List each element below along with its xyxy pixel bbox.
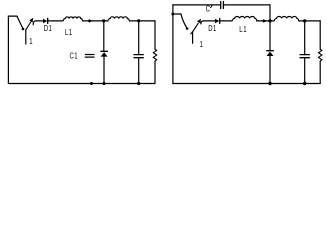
wire: bottom wire xyxy=(8,83,155,85)
svg-text:1: 1 xyxy=(200,40,203,49)
wire: capacitor branch upper xyxy=(304,21,306,55)
wire: diode branch upper xyxy=(269,21,271,51)
wire: top-left contact horizontal xyxy=(8,15,17,17)
switch SW1 blade xyxy=(17,16,23,28)
wire: capacitor branch lower xyxy=(304,58,306,84)
svg-text:D1: D1 xyxy=(208,24,217,33)
switch SW2 blade xyxy=(181,14,187,28)
wire: junction to L2 and L2 to C node xyxy=(270,20,274,22)
svg-text:C1: C1 xyxy=(70,52,79,61)
wire: top capacitor branch left xyxy=(173,4,220,6)
switch SW1 motion arrow xyxy=(26,22,31,30)
node: top of output capacitor xyxy=(303,19,306,22)
node: diode to bottom wire xyxy=(268,82,271,85)
inductor L1 xyxy=(63,17,83,21)
svg-text:D1: D1 xyxy=(44,24,53,33)
svg-text:L1: L1 xyxy=(65,28,73,37)
node: junction L1/L2/D2/C' xyxy=(268,19,271,22)
wire: diode branch lower xyxy=(269,56,271,84)
wire: bottom wire xyxy=(173,83,320,85)
wire: top wire start hook xyxy=(33,21,36,25)
capacitor C' xyxy=(220,2,222,9)
inductor L2 xyxy=(108,17,130,21)
svg-text:L1: L1 xyxy=(239,25,247,34)
wire: left vertical side xyxy=(7,16,9,84)
diode D1 xyxy=(215,19,219,24)
switch SW1 throw contact stub xyxy=(25,30,27,44)
wire: top capacitor branch right xyxy=(223,4,270,6)
wire: main wire start hook xyxy=(201,21,204,24)
wire: right edge upper xyxy=(154,21,156,49)
svg-text:C: C xyxy=(206,5,210,14)
switch SW2 contact stub xyxy=(173,13,181,15)
node: stray dot on bottom wire xyxy=(90,82,93,85)
diode D2 (vertical, pointing up) xyxy=(101,50,108,52)
wire: right edge upper xyxy=(319,21,321,49)
wire: D1 to L1 xyxy=(48,20,63,22)
node: capacitor to bottom wire xyxy=(137,82,140,85)
inductor L1 xyxy=(232,16,257,20)
wire: L1 to junction with current arrow xyxy=(257,20,270,22)
diode D1 xyxy=(43,19,47,24)
current arrowhead xyxy=(262,19,267,22)
wire: junction to L2 and L2 to C node xyxy=(104,20,108,22)
resistor R (load) xyxy=(319,49,322,61)
wire: capacitor branch lower xyxy=(138,58,140,84)
inductor L2 xyxy=(274,16,299,20)
wire: capacitor branch upper xyxy=(138,21,140,55)
switch SW2 motion arrow xyxy=(191,23,198,34)
wire: top wire to right corner xyxy=(305,20,321,22)
node: top of output capacitor xyxy=(137,19,140,22)
wire: top wire to right corner xyxy=(139,20,155,22)
wire: top branch drop to junction xyxy=(269,5,271,21)
switch SW1 pivot dot xyxy=(22,28,25,31)
capacitor C (output) xyxy=(300,54,309,56)
wire: top wire to diode D1 xyxy=(36,20,43,22)
wire: right edge lower xyxy=(319,61,321,83)
node: switch contact on left side xyxy=(171,13,174,16)
diode D2 (vertical, pointing up) xyxy=(267,50,274,52)
wire: right edge lower xyxy=(154,61,156,83)
wire: D1 to L1 xyxy=(220,20,232,22)
node: diode to bottom wire xyxy=(102,82,105,85)
capacitor C (output) xyxy=(134,54,143,56)
switch SW2 pivot dot xyxy=(186,27,189,30)
wire: L1 to junction with current arrow xyxy=(83,20,104,22)
switch SW2 throw contact stub xyxy=(192,32,194,43)
svg-text:1: 1 xyxy=(29,37,32,46)
wire: left vertical side xyxy=(172,5,174,84)
node: capacitor to bottom wire xyxy=(303,82,306,85)
node: junction L1/L2/D2 xyxy=(102,19,105,22)
wire: to diode D1 xyxy=(204,20,215,22)
current arrowhead xyxy=(88,19,93,22)
wire: diode branch upper xyxy=(103,21,105,51)
resistor R (load) xyxy=(153,49,156,61)
wire: diode branch lower xyxy=(103,57,105,84)
